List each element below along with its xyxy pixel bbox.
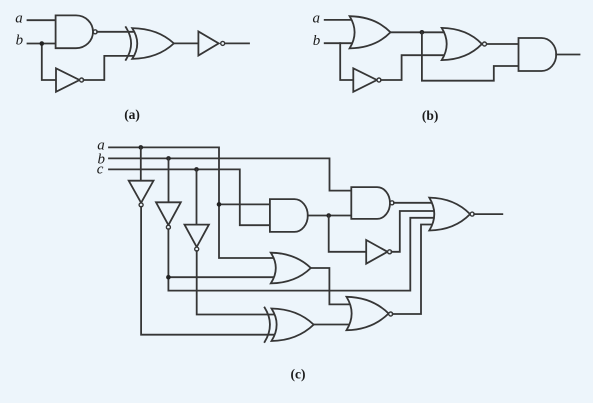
inverter U2 <box>56 68 84 92</box>
svg-text:a: a <box>15 11 23 27</box>
wire a to NAND U1 top input <box>28 19 57 21</box>
AND gate U8 <box>519 38 557 71</box>
wire OR U12 output down to NOR U14 top input <box>311 268 352 304</box>
wire c down to inverter V3 input <box>196 169 198 224</box>
wire inverter V3 output down and right to XOR U13 top input <box>197 251 278 315</box>
wire a: horizontal, corner down, to OR gate top input; passes AND top input <box>109 147 276 258</box>
svg-text:(c): (c) <box>291 366 306 381</box>
wire b down to inverter V2 input <box>168 158 170 202</box>
wire b branch down to inverter U6 input <box>340 43 353 80</box>
AND gate U9 <box>270 199 308 232</box>
inverter U6 <box>353 68 381 92</box>
junction dot on b <box>40 41 45 46</box>
junction dot on OR output <box>420 30 425 35</box>
wire output of circuit (a) <box>225 42 249 44</box>
wire NAND U10 output to big NOR U15 input 1 <box>394 202 434 204</box>
OR gate U12 <box>271 253 311 284</box>
wire b to NAND U1 bottom input <box>28 43 57 45</box>
wire branch to OR U12 bottom input <box>168 276 276 278</box>
junction dot a to inverter V1 <box>139 145 144 150</box>
wire AND U9 output to NAND U10 bottom input <box>308 215 353 217</box>
wire NAND U1 output to XOR U3 top input <box>97 31 138 33</box>
wire NOR U14 output right then up to big NOR U15 input 4 <box>393 225 434 315</box>
wire inverter V2 output down, branch to OR U12 bottom input, then long line right and up to big NOR U15 input 3 <box>168 218 434 291</box>
XOR gate U13 <box>265 308 314 343</box>
wire b to OR U5 bottom input <box>325 42 356 44</box>
svg-text:(a): (a) <box>124 107 140 122</box>
svg-text:(b): (b) <box>422 108 439 123</box>
junction dot c to inverter V3 <box>194 167 199 172</box>
wire inverter U2 output to XOR U3 bottom input <box>84 56 139 80</box>
NOR gate U14 <box>347 297 393 330</box>
wire inverter U6 output to NOR U7 bottom input <box>381 55 450 80</box>
wire junction down to buffer-inverter U11 input <box>329 216 367 252</box>
junction dot on inverter V2 output <box>166 275 171 280</box>
wire output of circuit (b) <box>556 54 579 56</box>
svg-text:a: a <box>313 11 321 27</box>
inverter V2 (down-pointing) <box>156 202 181 229</box>
svg-text:c: c <box>97 162 104 178</box>
big NOR gate U15 (4-input) <box>429 198 474 231</box>
wire OR U5 output to NOR U7 top input <box>391 31 450 33</box>
wire inverter U11 output up to big NOR U15 input 2 <box>392 211 435 252</box>
wire a to OR U5 top input <box>325 19 355 21</box>
wire b: horizontal, corner down to NAND U10 top input <box>109 158 353 190</box>
OR gate U5 <box>350 16 391 48</box>
NAND gate U10 <box>351 187 394 219</box>
NOR gate U7 <box>442 28 487 60</box>
wire inverter V1 output down and right to XOR U13 bottom input <box>141 207 280 335</box>
junction dot on AND U9 output <box>326 213 331 218</box>
wire NOR U7 output to AND U8 top input <box>487 43 519 45</box>
wire a down to inverter V1 input <box>140 147 142 180</box>
wire XOR U3 output to inverter U4 <box>174 42 198 44</box>
wire c: horizontal, corner down to AND U9 bottom input <box>109 169 271 225</box>
svg-text:b: b <box>16 33 24 49</box>
inverter V1 (down-pointing) <box>129 181 154 207</box>
junction dot b to inverter V2 <box>166 156 171 161</box>
wire junction down and to AND U8 bottom input <box>422 32 520 80</box>
wire XOR U13 output to NOR U14 bottom input <box>314 324 352 326</box>
NAND gate U1 <box>56 15 98 48</box>
wire a branch to AND U9 top input <box>219 203 271 205</box>
wire b branch down to inverter U2 input <box>42 44 57 81</box>
svg-text:b: b <box>313 33 321 49</box>
inverter V3 (down-pointing) <box>185 225 209 252</box>
junction dot on a vertical at AND branch <box>217 202 222 207</box>
inverter U4 <box>198 32 224 56</box>
wire output of circuit (c) <box>474 213 502 215</box>
inverter U11 (right-pointing) <box>366 240 391 264</box>
XOR gate U3 <box>126 27 174 60</box>
